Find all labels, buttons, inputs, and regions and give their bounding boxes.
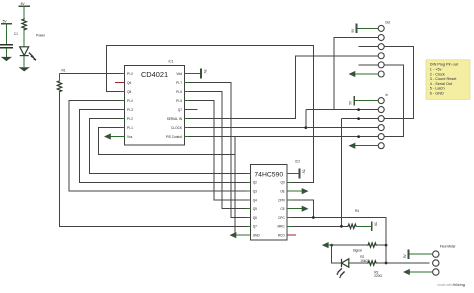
capacitor C1 xyxy=(0,32,18,57)
op-amp IC2 74HC590 xyxy=(247,160,301,240)
resistor R2 xyxy=(367,243,377,247)
svg-text:DIN Plug Pin out: DIN Plug Pin out xyxy=(430,63,459,67)
wire PI-3 to IC2 Q2 xyxy=(80,110,247,183)
LED signal xyxy=(336,259,349,279)
svg-text:Q5: Q5 xyxy=(253,207,257,211)
connector Flow Meter xyxy=(433,244,457,275)
svg-text:PI-2: PI-2 xyxy=(127,117,133,121)
wire PI-5 to IC2 Q4 xyxy=(189,101,247,200)
svg-text:10kΩ: 10kΩ xyxy=(360,259,368,263)
arrow In6 xyxy=(354,145,379,147)
wire PI-6 to IC2 Q5 xyxy=(189,92,247,209)
svg-text:CE: CE xyxy=(280,207,284,211)
wire SERIAL IN to Out4 xyxy=(189,56,379,119)
arrow GND IC2 xyxy=(235,234,247,236)
connector Out xyxy=(378,20,390,77)
wire CLOCK to In4 xyxy=(189,127,379,129)
svg-text:PI-7: PI-7 xyxy=(176,81,182,85)
resistor R1 xyxy=(57,68,66,92)
svg-text:Out: Out xyxy=(385,20,390,24)
svg-text:Q6: Q6 xyxy=(253,216,257,220)
svg-text:Q4: Q4 xyxy=(253,198,257,202)
wire PI-1 loop xyxy=(99,128,236,155)
svg-text:Q3: Q3 xyxy=(253,190,257,194)
svg-text:Power: Power xyxy=(36,33,46,37)
supply 5V VCC IC2 xyxy=(291,169,306,179)
arrow OE xyxy=(291,190,304,192)
svg-text:6 - GND: 6 - GND xyxy=(430,91,444,95)
svg-text:PI-0: PI-0 xyxy=(127,72,133,76)
pin Q7 red stub xyxy=(185,109,198,111)
supply 5V R4 xyxy=(372,222,378,232)
svg-text:SERIAL IN: SERIAL IN xyxy=(167,117,183,121)
connector In xyxy=(378,93,388,149)
arrow flow3 xyxy=(408,271,432,273)
svg-text:Signal: Signal xyxy=(353,248,362,252)
svg-text:fritzing: fritzing xyxy=(453,283,466,287)
op-amp IC1 CD4021 xyxy=(121,59,189,145)
pin Q6 red stub xyxy=(115,82,125,84)
arrow Signal xyxy=(327,244,332,246)
junction dots xyxy=(304,108,387,264)
supply 5V In1 xyxy=(349,96,379,106)
wire PI-2 to IC2 Q1 xyxy=(90,119,247,174)
svg-text:CPC: CPC xyxy=(278,216,285,220)
wire LED to R3 xyxy=(349,262,368,264)
wire Out3 to In3 xyxy=(384,47,413,119)
svg-text:1 - +5v: 1 - +5v xyxy=(430,67,442,71)
arrow Out6 xyxy=(354,73,379,75)
svg-text:RCO: RCO xyxy=(278,234,286,238)
svg-text:R1: R1 xyxy=(62,68,66,72)
arrow Vss xyxy=(109,136,125,138)
supply 5V flow1 xyxy=(403,249,433,259)
svg-text:Q2: Q2 xyxy=(253,181,257,185)
supply 5V P1 xyxy=(1,19,12,44)
wire Q8 top loop to IC2 Q0 xyxy=(107,45,314,182)
svg-text:Vss: Vss xyxy=(127,135,133,139)
svg-text:2 - Clock: 2 - Clock xyxy=(430,72,445,76)
svg-text:4 - Serial Out: 4 - Serial Out xyxy=(430,82,453,86)
supply 5V Vdd xyxy=(189,69,208,79)
svg-text:C1: C1 xyxy=(14,32,18,36)
wire Out2 to In2 xyxy=(334,38,378,110)
svg-text:3 - Count Reset: 3 - Count Reset xyxy=(430,77,458,81)
wire R3 to flow net xyxy=(377,262,386,264)
svg-text:PI-1: PI-1 xyxy=(127,126,133,130)
svg-text:Q7: Q7 xyxy=(253,225,257,229)
svg-text:PI-4: PI-4 xyxy=(127,99,133,103)
svg-text:Q0: Q0 xyxy=(281,181,285,185)
wire R1 to IC2 Q7 xyxy=(60,92,247,226)
svg-text:MRC: MRC xyxy=(278,225,286,229)
wire CPR to CPC xyxy=(291,200,313,218)
svg-text:74HC590: 74HC590 xyxy=(254,172,283,179)
wire R2 to CPC net xyxy=(377,244,386,246)
wire signal row xyxy=(332,244,368,246)
svg-text:Vdd: Vdd xyxy=(176,72,182,76)
wire In2 to clock net xyxy=(306,110,334,128)
note DIN plug pinout xyxy=(426,60,470,100)
svg-text:Q6: Q6 xyxy=(127,81,131,85)
wire PI-7 to IC2 Q6 xyxy=(189,83,247,218)
LED power xyxy=(20,47,36,67)
resistor R5 power xyxy=(22,18,27,46)
svg-text:GND: GND xyxy=(253,234,261,238)
wire signal to LED xyxy=(332,245,342,263)
pin RCO red stub xyxy=(287,234,296,236)
svg-text:Q8: Q8 xyxy=(127,90,131,94)
svg-text:IC1: IC1 xyxy=(169,59,174,63)
svg-text:CD4021: CD4021 xyxy=(141,70,168,79)
wire Out3 stub xyxy=(359,46,379,48)
svg-text:5 - Latch: 5 - Latch xyxy=(430,87,445,91)
svg-text:Flow Meter: Flow Meter xyxy=(440,244,457,248)
arrow CE xyxy=(291,208,304,210)
svg-text:PI-6: PI-6 xyxy=(176,90,182,94)
wire CPC to flow meter xyxy=(291,218,429,264)
wire P/S Control to In5 xyxy=(189,136,379,138)
svg-text:CPR: CPR xyxy=(278,198,285,202)
svg-text:PI-5: PI-5 xyxy=(176,99,182,103)
svg-text:IC2: IC2 xyxy=(295,160,300,164)
wire P/S Control branch xyxy=(234,137,236,236)
wire MRC to R4 xyxy=(291,225,347,227)
ground xyxy=(19,67,30,71)
resistor R3 xyxy=(367,261,377,265)
svg-text:220Ω: 220Ω xyxy=(374,274,382,278)
resistor R4 xyxy=(347,209,371,229)
svg-text:P/S Control: P/S Control xyxy=(166,135,183,139)
ground xyxy=(1,57,12,61)
wire Out5 stub xyxy=(359,64,379,66)
svg-text:PI-3: PI-3 xyxy=(127,108,133,112)
svg-text:OE: OE xyxy=(280,190,285,194)
wire R1 to PI-0 xyxy=(60,73,125,75)
svg-text:CLOCK: CLOCK xyxy=(171,126,183,130)
supply 5V Out1 xyxy=(351,24,378,34)
svg-text:made with: made with xyxy=(438,283,453,287)
supply 5V P2 xyxy=(19,2,30,18)
svg-text:Q7: Q7 xyxy=(178,108,182,112)
svg-text:R4: R4 xyxy=(355,209,359,213)
wire PI-4 to IC2 Q3 xyxy=(69,101,247,192)
wire In3 to MRC net xyxy=(341,119,378,227)
wire Out5 to In5 xyxy=(384,65,403,137)
svg-text:In: In xyxy=(386,93,389,97)
